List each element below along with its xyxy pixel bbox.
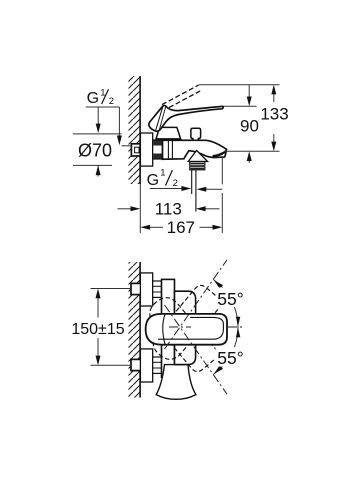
dim ext line lever tip <box>224 105 257 107</box>
hose nut <box>190 162 205 170</box>
label 55 deg lower <box>216 347 247 368</box>
supply union square lower <box>131 359 141 370</box>
centerline horizontal right <box>228 326 245 328</box>
centerline 55 up <box>165 260 228 349</box>
body <box>175 291 196 364</box>
ext line wall face down <box>139 184 141 233</box>
wall hatch <box>129 76 140 184</box>
centerline horizontal left <box>169 326 191 328</box>
dim 150±15 <box>91 288 132 290</box>
svg-text:G: G <box>147 172 159 189</box>
svg-text:55°: 55° <box>217 289 243 309</box>
aerator dark arc <box>212 150 226 157</box>
svg-text:167: 167 <box>167 218 195 237</box>
ext line hose / spout tip <box>221 156 223 184</box>
label 55 deg upper <box>216 288 247 309</box>
faucet body + spout <box>163 140 227 159</box>
svg-text:133: 133 <box>260 104 288 123</box>
svg-text:2: 2 <box>173 178 178 189</box>
svg-text:2: 2 <box>109 96 114 107</box>
escutcheon lower <box>140 349 152 382</box>
hex nut lower <box>153 357 162 373</box>
hose beak <box>188 150 207 161</box>
wall face line <box>139 76 141 184</box>
svg-text:150±15: 150±15 <box>71 321 124 338</box>
svg-text:90: 90 <box>240 116 259 135</box>
dashed lever down 55 <box>144 292 220 374</box>
svg-text:113: 113 <box>155 200 182 219</box>
angle arc 55 lower <box>213 327 240 375</box>
escutcheon upper <box>140 273 152 306</box>
dim 90 <box>248 85 250 98</box>
Ø70 label <box>73 133 122 135</box>
hex nut <box>153 140 163 159</box>
svg-text:Ø70: Ø70 <box>78 140 112 160</box>
diverter knob <box>191 128 201 140</box>
hex nut upper <box>153 281 162 297</box>
svg-text:G: G <box>87 90 99 107</box>
cartridge dome <box>156 127 181 138</box>
dim 167 <box>140 225 150 230</box>
mounting plate <box>162 279 175 377</box>
dashed open lever <box>162 85 199 105</box>
body joint lines <box>167 140 169 159</box>
svg-text:1: 1 <box>160 168 165 179</box>
wall face line <box>139 262 141 398</box>
centerline 55 down <box>165 305 228 394</box>
dim ext line spout outlet <box>224 150 280 152</box>
dim 113 <box>118 208 132 210</box>
wall hatch <box>129 262 140 398</box>
dim ext line top (open lever) <box>199 84 280 86</box>
supply union square in wall <box>131 144 140 156</box>
supply union square upper <box>131 283 141 294</box>
angle arc 55 upper <box>213 280 240 328</box>
lever handle (side view) <box>149 106 223 132</box>
solid lever (from below) <box>146 314 227 345</box>
svg-text:55°: 55° <box>217 348 243 368</box>
dashed lever up 55 <box>148 283 224 365</box>
hose lines <box>191 170 193 194</box>
escutcheon <box>140 133 152 166</box>
spout bell <box>156 365 196 400</box>
dim 133 <box>273 94 275 103</box>
